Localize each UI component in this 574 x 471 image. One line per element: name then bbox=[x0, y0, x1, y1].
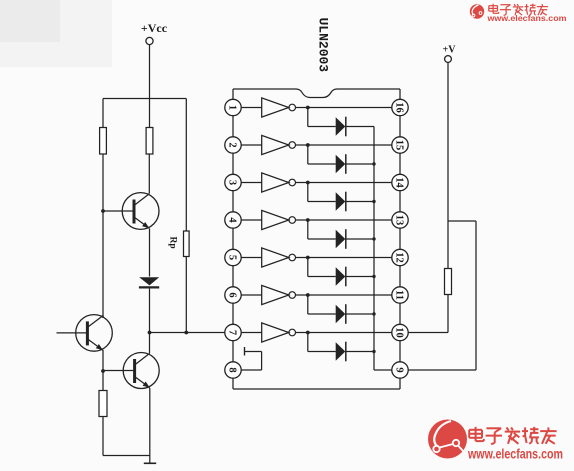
svg-text:10: 10 bbox=[393, 327, 404, 338]
svg-text:15: 15 bbox=[393, 140, 404, 151]
svg-text:11: 11 bbox=[393, 290, 404, 300]
svg-text:+Vcc: +Vcc bbox=[141, 21, 168, 35]
svg-text:14: 14 bbox=[393, 177, 404, 188]
svg-text:5: 5 bbox=[226, 255, 237, 260]
svg-text:1: 1 bbox=[226, 105, 237, 110]
svg-text:12: 12 bbox=[393, 252, 404, 263]
svg-text:www.elecfans.com: www.elecfans.com bbox=[486, 13, 566, 23]
svg-text:4: 4 bbox=[226, 217, 237, 223]
svg-text:ULN2003: ULN2003 bbox=[316, 18, 331, 73]
svg-text:6: 6 bbox=[226, 292, 237, 297]
svg-text:3: 3 bbox=[226, 180, 237, 185]
svg-text:Rp: Rp bbox=[168, 237, 178, 249]
svg-text:16: 16 bbox=[393, 102, 404, 113]
svg-text:9: 9 bbox=[393, 367, 404, 372]
svg-text:7: 7 bbox=[226, 330, 237, 335]
svg-text:2: 2 bbox=[226, 142, 237, 147]
svg-text:13: 13 bbox=[393, 215, 404, 226]
svg-text:+V: +V bbox=[443, 45, 457, 56]
svg-text:8: 8 bbox=[226, 367, 237, 372]
svg-text:www.elecfans.com: www.elecfans.com bbox=[467, 447, 563, 462]
